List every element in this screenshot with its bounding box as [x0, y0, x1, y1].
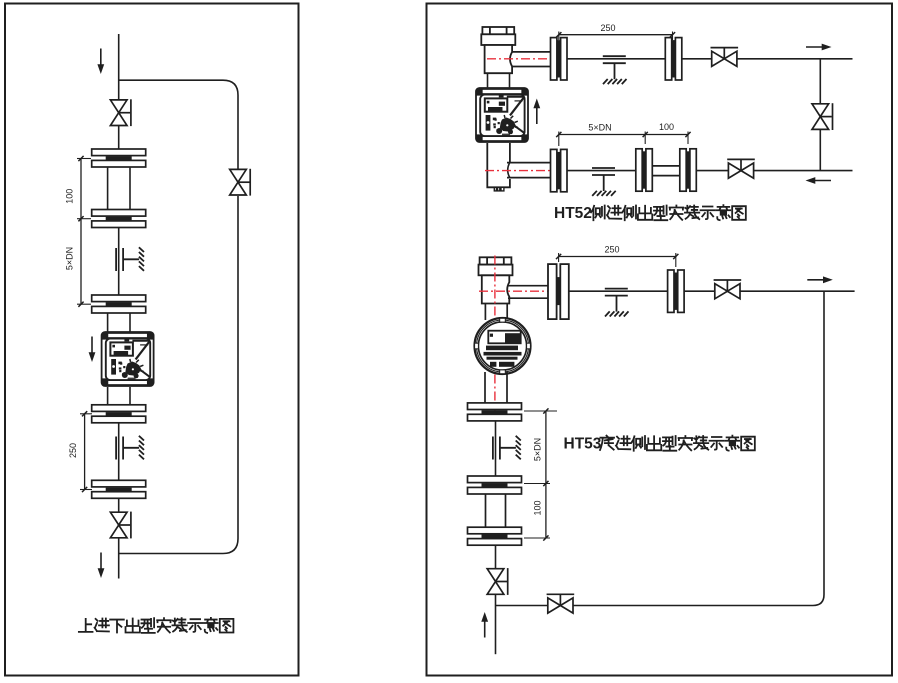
wire: loop vertical and bottom return [496, 291, 825, 605]
HT53 round meter M3 [475, 318, 531, 374]
pipe support (wall anchor) [116, 247, 144, 271]
svg-text:250: 250 [600, 23, 615, 33]
HT53 meter pipe walls upper [484, 304, 486, 321]
HT52 meter bottom cap [494, 187, 504, 191]
wire: inlet pipe top [118, 34, 120, 101]
svg-text:250: 250 [68, 443, 78, 458]
red centreline top outlet [487, 58, 570, 60]
wire: B to C [118, 228, 120, 296]
wire: bypass branch top [119, 80, 238, 168]
flow arrow up beside meter [533, 99, 540, 125]
flange pair A [92, 149, 146, 167]
HT52 flow meter body [476, 88, 528, 142]
tall flange pair G1 [548, 264, 569, 319]
svg-text:5×DN: 5×DN [588, 123, 611, 133]
valve V3 (bypass) [230, 169, 251, 196]
valve VH2 [727, 159, 755, 178]
flange pair F4 [636, 149, 653, 191]
svg-text:5×DN: 5×DN [532, 438, 542, 461]
flow arrow outlet (down) [98, 553, 105, 579]
flow arrow right (top) [806, 44, 832, 51]
red centreline outlet [479, 290, 569, 292]
valve VH1 [711, 48, 739, 67]
flow arrow left (bottom) [806, 177, 832, 184]
HT52 meter neck upper [487, 73, 489, 87]
svg-text:HT53: HT53 [564, 435, 602, 452]
flange pair B [92, 210, 146, 228]
wire: bypass vertical [819, 59, 821, 104]
flow arrow at meter (down) [89, 337, 96, 363]
svg-text:100: 100 [532, 500, 542, 515]
wire: bypass return bottom [119, 196, 238, 554]
flange pair F2 [665, 38, 682, 80]
wire: D to E [118, 423, 120, 481]
valve VH4 (return line) [547, 594, 575, 613]
flange pair C [92, 295, 146, 313]
flange pair F3 [551, 149, 568, 191]
valve VH3 [714, 280, 742, 299]
flange pair E [92, 480, 146, 498]
caption: top-in bottom-out installation diagram [79, 619, 93, 632]
wire: H1 to H2 [495, 421, 497, 476]
pipe spool A-B [107, 168, 109, 210]
pipe support bottom run [592, 168, 616, 196]
wire: E to valve V2 [118, 498, 120, 512]
red centreline bottom inlet [485, 170, 570, 172]
flow arrow inlet (down) [97, 49, 104, 75]
svg-text:100: 100 [65, 189, 75, 204]
valve V1 (inlet isolation) [110, 99, 131, 126]
flange pair F1 [551, 38, 568, 80]
pipe spool meter-D [107, 387, 109, 405]
dimension 5xDN bottom [559, 134, 645, 136]
pipe support top run [603, 56, 627, 84]
wire: F5 to valve [696, 170, 728, 172]
HT52 meter neck lower [487, 143, 510, 187]
wire: outlet pipe to flange [508, 285, 548, 287]
red vertical centreline [494, 256, 496, 415]
wire: F1 to F2 [567, 58, 666, 60]
dimension 5xDN / 100 right of stack [545, 411, 547, 538]
flow arrow up (inlet) [481, 612, 488, 638]
svg-text:100: 100 [659, 122, 674, 132]
flange pair D [92, 405, 146, 423]
wire: G2 to valve [684, 290, 715, 292]
flange pair G2 [668, 270, 685, 312]
wire: F3 to spool [567, 170, 636, 172]
flange pair F5 [680, 149, 697, 191]
dimension 250 HT53 [559, 256, 676, 258]
svg-text:250: 250 [604, 245, 619, 255]
HT52 meter top assembly [481, 27, 515, 73]
valve V2 (outlet isolation) [110, 512, 131, 539]
wire: F2 to valve [682, 58, 712, 60]
left panel frame [5, 4, 299, 676]
flange pair H1 [468, 403, 522, 421]
wire: valve to right [754, 170, 853, 172]
pipe support lower [116, 436, 144, 460]
flow arrow right (HT53) [807, 276, 833, 283]
wire: H3 to valve [495, 545, 497, 569]
right panel frame [427, 4, 893, 676]
valve VV3 (bypass) [812, 103, 833, 130]
wire: valve to flange A [118, 126, 120, 150]
valve VV4 (inlet) [487, 568, 508, 595]
flange pair H3 [468, 527, 522, 545]
dimension line 100 / 5xDN [80, 159, 82, 305]
HT53 meter pipe walls lower [484, 372, 486, 403]
wire: outlet to flange [512, 51, 551, 53]
pipe support lower stack [493, 436, 521, 460]
wire: G1 to G2 [569, 290, 668, 292]
spool H2-H3 [485, 494, 487, 528]
dimension line 250 [84, 414, 86, 490]
dimension 250 top [559, 34, 673, 36]
svg-text:5×DN: 5×DN [65, 247, 75, 270]
HT53 meter top assembly [479, 257, 513, 303]
svg-text:HT52: HT52 [554, 205, 592, 222]
wire: valve to right end [737, 58, 853, 60]
wire: outlet pipe bottom [118, 538, 120, 579]
pipe support HT53 [605, 289, 629, 317]
flange pair H2 [468, 476, 522, 494]
wire: inlet pipe to meter [507, 162, 551, 164]
wire: inlet pipe bottom [495, 594, 497, 654]
spool between F4-F5 [652, 165, 680, 167]
dimension 100 bottom [645, 134, 688, 136]
flow meter M1 (HT51 square body) [102, 332, 154, 386]
pipe spool C-meter [107, 313, 109, 332]
wire: valve to right end [740, 290, 855, 292]
